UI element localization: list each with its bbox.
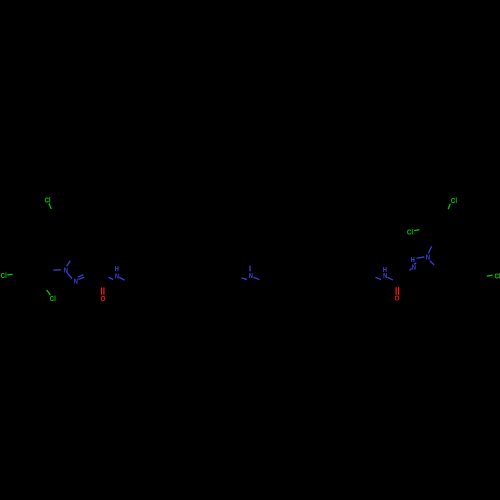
pyrazole ring right (frame)	[407, 257, 437, 283]
pyrazole N1 bond to aryl (blue half)	[53, 269, 61, 271]
central amine N-CH3 bond (blue half)	[249, 266, 251, 272]
right amide N bond to chain (blue half)	[376, 277, 381, 279]
bond amide N-carbonyl (right)	[384, 275, 397, 283]
svg-text:N: N	[412, 262, 416, 271]
benzene ring left 2,4-dichlorophenyl	[18, 260, 46, 286]
svg-text:O: O	[101, 294, 106, 303]
bond carbonyl-amide N (left)	[103, 275, 116, 283]
bond Cl-ring black halves	[3, 200, 497, 298]
svg-text:N: N	[383, 271, 387, 280]
central amine N bond left (blue half)	[242, 278, 247, 280]
right pyrazole N1 bond to C5 (blue half)	[430, 261, 434, 265]
bond C3-carbonyl (left)	[88, 275, 103, 283]
bond C5-aryl (left)	[67, 243, 73, 257]
svg-text:Cl: Cl	[451, 196, 457, 205]
left amide N bond to carbonyl (blue half)	[109, 277, 114, 279]
svg-text:N: N	[115, 271, 119, 280]
right NH bond to C3 (blue half)	[409, 269, 411, 271]
bond carbonyl-C3 (right)	[397, 273, 407, 283]
right amide N bond to carbonyl (blue half)	[388, 277, 393, 280]
wire left alkyl chain	[116, 274, 250, 283]
pyrazole N2=C3 double bond main (blue half)	[78, 277, 84, 279]
right pyrazole N1 bond to aryl (blue half)	[428, 246, 431, 253]
svg-text:N: N	[64, 266, 68, 275]
benzene ring left 4-chlorophenyl	[46, 216, 76, 244]
benzene ring right 2,4-dichlorophenyl	[425, 214, 457, 243]
left amide C=O double bond (red)	[101, 287, 103, 294]
svg-text:N: N	[426, 252, 430, 261]
svg-text:Cl: Cl	[50, 294, 56, 303]
bond N1-aryl (right)	[427, 243, 434, 256]
svg-text:N: N	[74, 276, 78, 285]
chlorine Cl4 green half-bond (right ring top)	[448, 204, 450, 209]
right NH bond up-right (blue half)	[414, 263, 416, 264]
chlorine Cl3 green half-bond (left ring, ortho)	[47, 290, 51, 295]
right amide C=O double bond (red)	[395, 287, 397, 295]
left amide N bond to chain (blue half)	[119, 277, 124, 280]
pyrazole N2=C3 double bond inner (blue half)	[78, 275, 84, 278]
bond C5-aryl (right)	[437, 267, 453, 273]
pyrazole ring left (C-C/C-N frame)	[65, 257, 88, 281]
svg-text:Cl: Cl	[44, 196, 50, 205]
pyrazole N1 bond to C5 (blue half)	[67, 261, 71, 266]
wire right alkyl chain	[250, 274, 384, 282]
chlorine Cl6 green half-bond (far right)	[487, 274, 493, 277]
chlorine Cl5 green half-bond (right ring left)	[414, 229, 419, 232]
benzene ring right 4-chlorophenyl	[453, 261, 483, 288]
central amine N bond right (blue half)	[253, 277, 259, 279]
svg-text:Cl: Cl	[1, 271, 7, 280]
svg-text:Cl: Cl	[407, 228, 413, 237]
bond N1-aryl (left)	[46, 269, 65, 272]
svg-text:N: N	[249, 271, 253, 280]
chlorine Cl1 green half-bond (left 4-chlorophenyl)	[49, 203, 51, 209]
right pyrazole N1 bond left (blue half)	[417, 257, 425, 258]
bond central N-methyl	[249, 260, 251, 275]
pyrazole N1-N2 bond (blue)	[67, 273, 72, 279]
svg-text:O: O	[395, 294, 400, 303]
chlorine Cl2 green half-bond (left ring, para)	[7, 273, 12, 276]
svg-text:Cl: Cl	[494, 272, 500, 281]
